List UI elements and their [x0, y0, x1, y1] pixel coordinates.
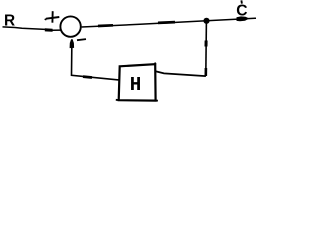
- plus sign label: [45, 11, 59, 23]
- wire thick ink dash: [83, 75, 92, 79]
- arrowhead into summing junction: [45, 28, 53, 32]
- wire thick ink on vertical: [205, 41, 208, 47]
- wire thick ink segment 2: [158, 21, 175, 24]
- svg-text:H: H: [130, 74, 142, 96]
- junction dot: [203, 18, 209, 24]
- svg-text:C: C: [236, 3, 247, 20]
- wire summing junction to junction dot to output arrow: [82, 18, 256, 27]
- op summing junction: [60, 16, 80, 36]
- output arrowhead: [237, 16, 250, 21]
- wire R to summing junction: [3, 27, 61, 30]
- wire thick ink segment 1: [98, 24, 113, 27]
- wire junction dot down to feedback path: [205, 21, 208, 76]
- minus sign label: [77, 39, 86, 40]
- wire thick ink near corner: [205, 68, 208, 76]
- block H: [119, 64, 156, 100]
- block H corner ink overshoots: [116, 63, 158, 101]
- wire vertical corner to block H input: [156, 71, 206, 76]
- wire block H output left and up to summing junction: [72, 40, 119, 80]
- arrowhead up into summing junction: [70, 39, 75, 48]
- tick mark above C: [240, 0, 243, 3]
